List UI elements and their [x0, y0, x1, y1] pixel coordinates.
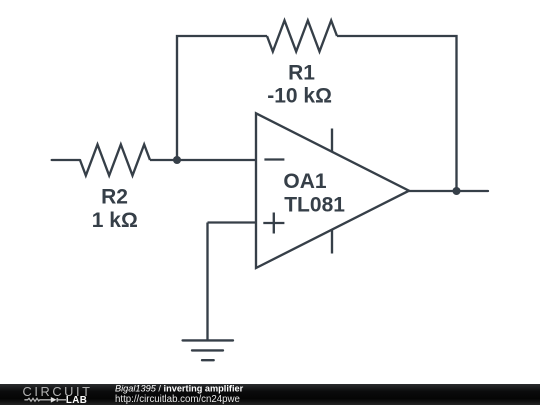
wire R2 to inverting input [150, 159, 256, 161]
wire output [409, 190, 488, 192]
svg-text:R1: R1 [288, 62, 315, 85]
node junction dot output [453, 187, 461, 195]
svg-text:-10 kΩ: -10 kΩ [267, 85, 332, 108]
op-amp power pin bottom [331, 230, 333, 254]
svg-text:R2: R2 [101, 186, 128, 209]
node junction dot inverting input [173, 156, 181, 164]
svg-text:http://circuitlab.com/cn24pwe: http://circuitlab.com/cn24pwe [115, 394, 240, 405]
wire feedback top right [337, 36, 457, 191]
op-amp power pin top [331, 129, 333, 153]
svg-text:OA1: OA1 [283, 170, 327, 193]
logo resistor-diode squiggle [24, 398, 66, 402]
op-amp OA1 triangle [256, 113, 409, 268]
wire non-inverting input [208, 221, 257, 223]
svg-text:1 kΩ: 1 kΩ [92, 209, 138, 232]
wire feedback vertical left [177, 36, 267, 160]
wire to ground [206, 223, 208, 341]
resistor R1 [267, 21, 337, 52]
op-amp minus marker [264, 158, 284, 160]
op-amp plus marker [263, 213, 284, 234]
ground [183, 340, 233, 360]
svg-text:Bigal1395 / inverting amplifie: Bigal1395 / inverting amplifier [115, 384, 244, 394]
svg-text:LAB: LAB [66, 395, 87, 405]
resistor R2 [80, 145, 150, 176]
logo diode [51, 397, 57, 403]
svg-text:TL081: TL081 [284, 194, 345, 217]
wire input left lead [52, 159, 80, 161]
